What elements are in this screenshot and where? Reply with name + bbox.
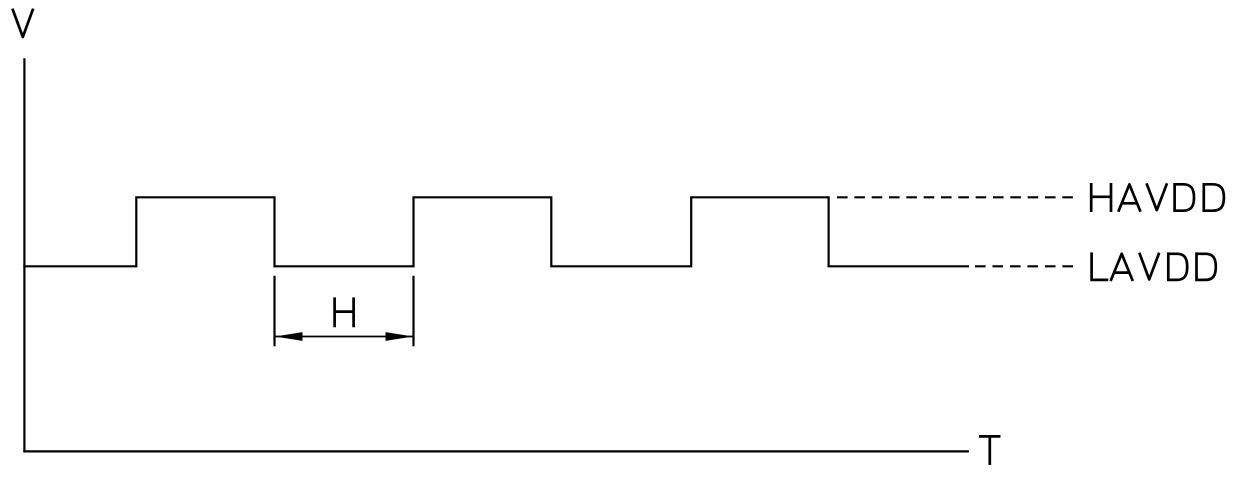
H dimension right arrowhead (386, 332, 414, 341)
V axis (vertical) (23, 58, 25, 452)
LAVDD label second letter D (1197, 252, 1216, 281)
T axis (horizontal) (23, 450, 969, 452)
HAVDD label letter V (1147, 183, 1168, 210)
LAVDD label letter V (1139, 253, 1159, 280)
V axis label letter V (12, 9, 33, 37)
HAVDD label second letter D (1204, 183, 1224, 212)
H dimension left extension line (273, 276, 275, 347)
HAVDD label letter A (1118, 184, 1140, 211)
HAVDD label first letter D (1175, 183, 1194, 212)
LAVDD dashed reference line (975, 265, 1073, 267)
H dimension left arrowhead (275, 332, 303, 341)
H dimension label letter H (335, 297, 354, 327)
HAVDD label letter H (1091, 183, 1111, 212)
T axis label letter T (979, 436, 1001, 465)
LAVDD label first letter D (1168, 252, 1187, 281)
H dimension arrow line (275, 336, 414, 338)
waveform square wave HAVDD/LAVDD pulses (23, 197, 969, 266)
H dimension right extension line (412, 276, 414, 347)
HAVDD dashed reference line (837, 196, 1073, 198)
LAVDD label letter A (1111, 254, 1133, 281)
LAVDD label letter L (1090, 252, 1108, 280)
